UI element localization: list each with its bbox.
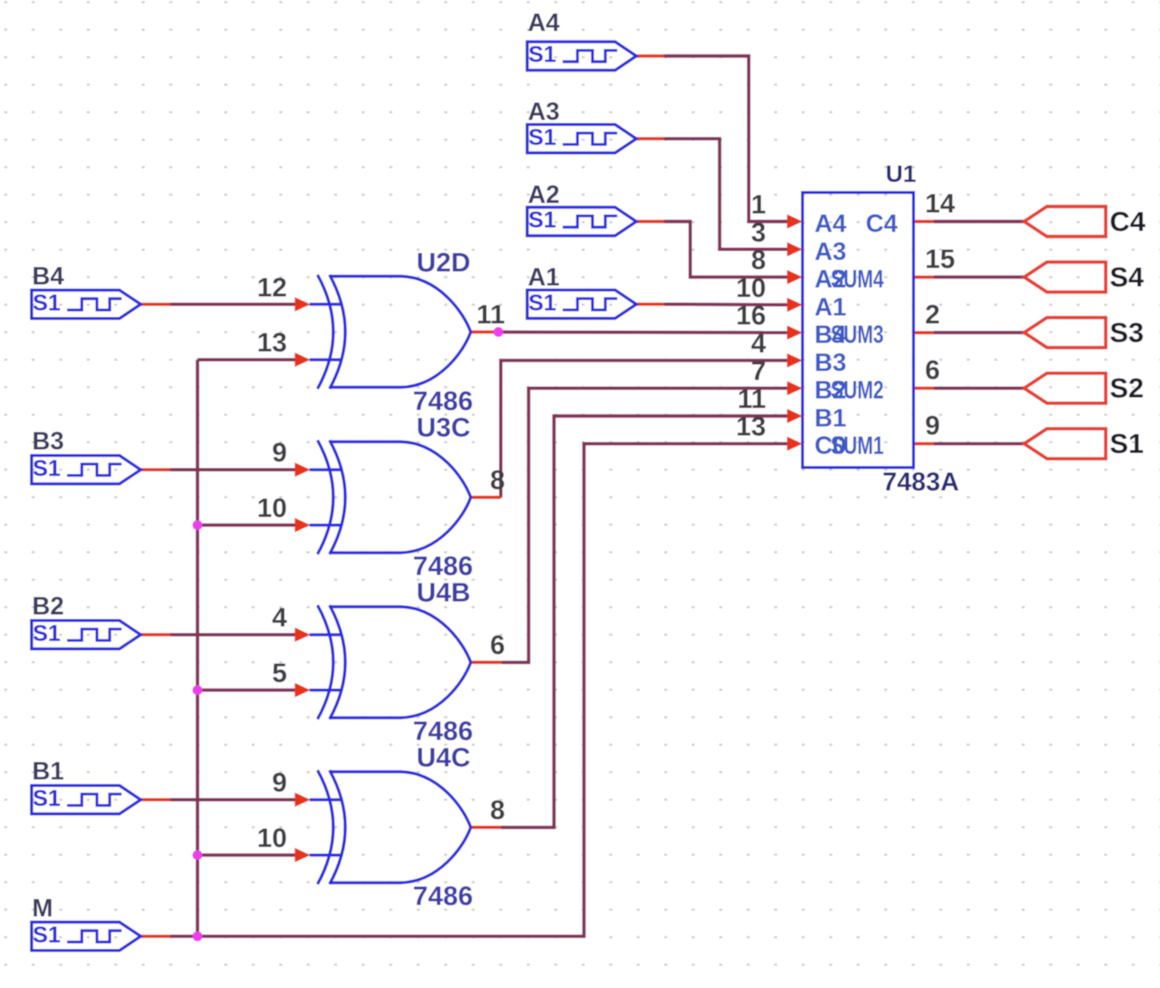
svg-text:2: 2 [925,300,940,330]
svg-text:SUM2: SUM2 [831,377,884,405]
svg-text:S1: S1 [33,620,61,646]
svg-text:S1: S1 [528,41,556,67]
svg-text:B1: B1 [32,758,64,786]
svg-text:A1: A1 [815,293,847,321]
svg-text:6: 6 [925,355,940,385]
svg-text:11: 11 [737,384,766,414]
svg-text:9: 9 [272,768,287,798]
svg-text:SUM1: SUM1 [831,432,884,460]
svg-text:9: 9 [272,438,287,468]
svg-text:4: 4 [751,328,766,358]
svg-text:U4C: U4C [416,743,470,773]
svg-text:A4: A4 [815,210,847,238]
svg-text:8: 8 [490,465,505,495]
svg-text:S1: S1 [528,124,556,150]
svg-text:12: 12 [257,272,287,302]
svg-text:C4: C4 [1110,206,1146,237]
svg-text:C4: C4 [866,210,898,238]
svg-text:B3: B3 [815,349,847,377]
svg-text:10: 10 [257,493,287,523]
svg-text:S1: S1 [33,785,61,811]
svg-text:13: 13 [257,328,287,358]
svg-text:B4: B4 [32,262,64,290]
svg-text:1: 1 [751,190,766,220]
svg-text:U3C: U3C [416,413,470,443]
svg-text:B1: B1 [815,405,847,433]
svg-text:4: 4 [272,603,287,633]
svg-text:S4: S4 [1110,262,1145,293]
svg-text:U2D: U2D [416,247,470,277]
svg-text:A1: A1 [528,263,560,291]
svg-text:A3: A3 [528,98,560,126]
svg-text:7486: 7486 [413,716,473,746]
svg-text:U1: U1 [886,161,917,188]
svg-text:7: 7 [751,356,766,386]
svg-text:S2: S2 [1110,373,1144,404]
svg-text:7483A: 7483A [883,467,960,497]
svg-text:S1: S1 [33,455,61,481]
svg-text:14: 14 [925,189,955,219]
svg-text:10: 10 [257,823,287,853]
svg-text:7486: 7486 [413,551,473,581]
svg-text:15: 15 [925,244,955,274]
svg-text:A4: A4 [528,9,560,37]
svg-text:7486: 7486 [413,881,473,911]
svg-text:B3: B3 [32,428,64,456]
svg-text:10: 10 [736,273,766,303]
svg-text:S1: S1 [528,289,556,315]
svg-text:6: 6 [490,630,505,660]
svg-text:16: 16 [736,301,766,331]
svg-text:8: 8 [490,795,505,825]
svg-text:13: 13 [736,412,766,442]
svg-text:S1: S1 [528,207,556,233]
svg-text:SUM4: SUM4 [831,266,884,294]
svg-text:B2: B2 [32,593,64,621]
svg-text:SUM3: SUM3 [831,321,884,349]
svg-text:8: 8 [751,245,766,275]
svg-text:9: 9 [925,411,940,441]
svg-text:S1: S1 [33,290,61,316]
svg-text:S1: S1 [33,922,61,948]
svg-text:7486: 7486 [413,386,473,416]
svg-text:A3: A3 [815,238,847,266]
svg-text:S1: S1 [1110,428,1144,459]
svg-text:S3: S3 [1110,317,1144,348]
svg-text:U4B: U4B [416,578,470,608]
svg-text:5: 5 [272,658,287,688]
svg-text:A2: A2 [528,181,560,209]
svg-text:11: 11 [476,300,505,330]
svg-text:M: M [32,894,53,922]
svg-text:3: 3 [751,217,766,247]
